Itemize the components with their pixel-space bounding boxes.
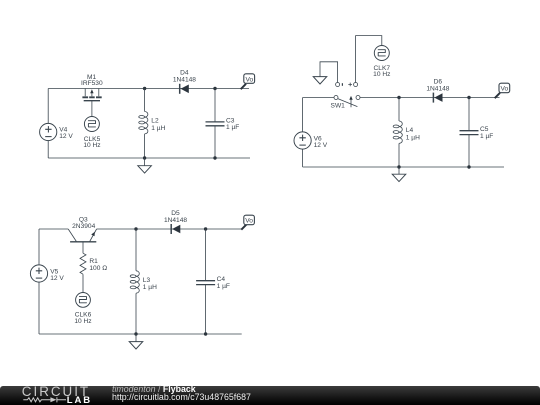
svg-text:10 Hz: 10 Hz [74, 318, 91, 325]
svg-text:1N4148: 1N4148 [426, 85, 449, 92]
footer bar [0, 386, 540, 405]
wire left branch V6 bottom [302, 149, 304, 167]
node junction L4 top [397, 96, 400, 99]
svg-text:Vo: Vo [245, 218, 253, 225]
node junction C4 top [204, 227, 207, 230]
svg-text:D4: D4 [180, 69, 189, 76]
svg-text:12 V: 12 V [50, 275, 64, 282]
svg-text:1 µF: 1 µF [217, 283, 230, 290]
node junction C3 top [213, 87, 216, 90]
wire top rail right segment circuit3 [97, 228, 242, 230]
voltage source V6 [294, 132, 328, 149]
ground circuit1 [138, 158, 152, 173]
node junction L3 top [134, 227, 137, 230]
clock source CLK5 [83, 117, 100, 150]
ground SW1 control [313, 77, 327, 84]
wire SW1 plus control to CLK7 [356, 36, 382, 83]
svg-text:Vo: Vo [500, 86, 508, 93]
svg-text:IRF530: IRF530 [81, 80, 103, 87]
diode D5 1N4148 [164, 210, 187, 234]
CircuitLab logo [0, 386, 100, 405]
svg-text:L4: L4 [406, 127, 414, 134]
svg-text:SW1: SW1 [331, 102, 346, 109]
svg-text:1 µH: 1 µH [151, 125, 165, 132]
inductor L4 [393, 121, 420, 143]
ground circuit2 [392, 167, 406, 182]
wire left branch V6 top [302, 98, 304, 132]
voltage source V4 [40, 123, 74, 140]
wire left branch V4 top [47, 89, 49, 124]
svg-text:10 Hz: 10 Hz [373, 71, 390, 78]
capacitor C4 [196, 229, 230, 334]
wire left branch V5 bottom [38, 282, 40, 334]
svg-text:1 µH: 1 µH [406, 134, 420, 141]
wire L4 bottom [398, 143, 400, 167]
wire L3 top [135, 229, 137, 271]
node junction L2 bottom [143, 156, 146, 159]
wire bottom rail circuit3 [39, 333, 242, 335]
svg-text:12 V: 12 V [314, 142, 328, 149]
wire left branch V5 top [38, 229, 40, 265]
svg-text:1 µH: 1 µH [143, 284, 157, 291]
net flag Vo circuit2 [495, 83, 510, 98]
svg-text:L2: L2 [151, 118, 159, 125]
node junction L2 top [143, 87, 146, 90]
wire L2 top [144, 89, 146, 112]
diode D4 1N4148 [173, 69, 196, 94]
svg-text:L3: L3 [143, 277, 151, 284]
svg-text:2N3904: 2N3904 [72, 223, 95, 230]
wire bottom rail circuit2 [303, 166, 504, 168]
inductor L3 [130, 271, 157, 293]
footer text [112, 384, 196, 394]
node junction C5 top [467, 96, 470, 99]
resistor R1 [80, 253, 107, 274]
clock source CLK6 [74, 293, 91, 325]
wire base Q3 to R1 [82, 242, 84, 253]
voltage source V5 [30, 265, 64, 282]
net flag Vo circuit1 [241, 74, 255, 89]
wire L3 bottom [135, 293, 137, 334]
clock source CLK7 [373, 46, 390, 79]
capacitor C5 [460, 98, 494, 168]
inductor L2 [139, 112, 166, 134]
wire main rail right segment circuit2 [360, 97, 500, 99]
wire L2 bottom [144, 134, 146, 158]
transistor Q3 (NPN 2N3904) [68, 216, 96, 241]
svg-text:1N4148: 1N4148 [173, 76, 196, 83]
svg-text:1N4148: 1N4148 [164, 217, 187, 224]
net flag Vo circuit3 [241, 215, 254, 230]
svg-text:100 Ω: 100 Ω [89, 265, 107, 272]
wire top rail circuit1 [48, 88, 249, 90]
node junction C3 bottom [213, 156, 216, 159]
wire left branch V4 bottom [47, 141, 49, 158]
diode D6 1N4148 [426, 78, 449, 102]
svg-text:10 Hz: 10 Hz [83, 142, 100, 149]
svg-text:1 µF: 1 µF [226, 124, 239, 131]
transistor M1 (NMOS IRF530) [81, 74, 103, 101]
node junction L4 bottom [397, 165, 400, 168]
node junction L3 bottom [134, 332, 137, 335]
node junction C4 bottom [204, 332, 207, 335]
wire L4 top [398, 98, 400, 122]
svg-text:12 V: 12 V [59, 133, 73, 140]
svg-text:R1: R1 [89, 258, 98, 265]
wire SW1 minus control to ground [320, 62, 338, 83]
wire top rail left segment circuit3 [39, 228, 68, 230]
wire main rail left segment circuit2 [303, 97, 334, 99]
ground circuit3 [129, 334, 143, 349]
svg-text:LAB: LAB [67, 395, 92, 405]
svg-text:1 µF: 1 µF [480, 133, 493, 140]
wire gate M1 to CLK5 [91, 101, 93, 117]
node junction C5 bottom [467, 165, 470, 168]
wire bottom rail circuit1 [48, 157, 250, 159]
capacitor C3 [206, 89, 240, 159]
wire R1 to CLK6 [82, 274, 84, 292]
switch SW1 [331, 83, 360, 110]
svg-text:Vo: Vo [245, 76, 253, 83]
